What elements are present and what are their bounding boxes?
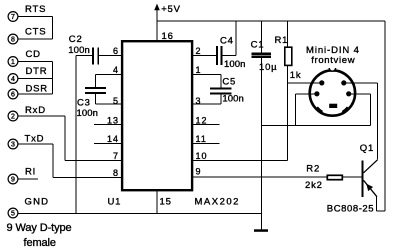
- svg-text:MAX202: MAX202: [195, 196, 240, 207]
- connector pin 8 circle: [8, 34, 18, 44]
- capacitor C5 plates: [210, 88, 232, 95]
- svg-text:6: 6: [11, 92, 15, 99]
- resistor R2: [327, 175, 342, 179]
- transistor Q1 base bar: [362, 161, 364, 198]
- wire U1 pin14 stub: [94, 143, 121, 145]
- wire DSR from pin6: [18, 93, 52, 95]
- svg-text:CD: CD: [26, 49, 41, 60]
- transistor Q1 collector diagonal: [364, 160, 378, 173]
- wire TxD horizontal: [18, 143, 53, 145]
- svg-text:10: 10: [196, 151, 208, 161]
- connector pin 1 circle: [8, 57, 18, 67]
- wire DIN lower-right drop: [369, 94, 371, 126]
- svg-text:8: 8: [113, 168, 119, 178]
- svg-text:C2: C2: [69, 34, 83, 45]
- svg-text:2: 2: [196, 46, 202, 56]
- svg-text:4: 4: [113, 65, 119, 75]
- wire CTS from pin8: [18, 38, 52, 40]
- wire into U1 pin8: [53, 176, 121, 178]
- capacitor C3 plates: [85, 87, 106, 94]
- wire collector vertical: [376, 83, 378, 160]
- Mini-DIN pin dot upper-left: [319, 80, 324, 85]
- svg-text:U1: U1: [108, 196, 122, 207]
- wire RxD horizontal: [18, 115, 65, 117]
- svg-text:1k: 1k: [290, 70, 302, 81]
- wire C4 drop from rail: [235, 21, 237, 56]
- wire +5V rail: [157, 20, 385, 22]
- svg-text:RTS: RTS: [25, 4, 46, 15]
- svg-text:7: 7: [113, 151, 119, 161]
- svg-text:C5: C5: [222, 77, 236, 88]
- wire RI stub: [18, 178, 38, 180]
- wire emitter U bottom: [377, 210, 386, 212]
- svg-text:BC808-25: BC808-25: [327, 203, 374, 214]
- ground symbol: [254, 229, 268, 232]
- svg-text:C1: C1: [251, 40, 265, 51]
- svg-text:100n: 100n: [222, 94, 244, 105]
- svg-text:16: 16: [162, 31, 174, 42]
- connector pin 4 circle: [8, 74, 18, 84]
- Mini-DIN pin dot upper-right: [341, 80, 346, 85]
- svg-text:C3: C3: [77, 97, 91, 108]
- connector pin 7 circle: [8, 12, 18, 22]
- wire CD from pin1: [18, 61, 52, 63]
- wire CD-DTR-DSR loop vertical: [52, 62, 54, 95]
- svg-text:female: female: [24, 237, 56, 249]
- wire TxD vertical: [52, 144, 54, 177]
- wire +5V right side down: [384, 21, 386, 211]
- svg-text:2: 2: [11, 114, 15, 121]
- wire U1 pin15 to ground rail: [156, 191, 158, 213]
- svg-text:14: 14: [107, 134, 119, 144]
- wire C5 bottom to pin3 wire: [220, 94, 222, 104]
- Mini-DIN left shield tab: [316, 108, 322, 113]
- Mini-DIN right shield tab: [343, 108, 349, 113]
- wire C2 to ground vertical: [75, 56, 77, 214]
- wire C2 to U1 pin6: [99, 55, 121, 57]
- wire RTS from pin7: [18, 16, 52, 18]
- wire DIN lower-left pin: [296, 93, 317, 95]
- svg-text:GND: GND: [25, 196, 50, 207]
- svg-text:RI: RI: [25, 167, 36, 178]
- capacitor C4 plates: [216, 46, 222, 65]
- wire U1 pin4: [96, 73, 121, 75]
- svg-text:1: 1: [11, 59, 15, 66]
- wire U1 pin13 stub: [94, 124, 121, 126]
- wire DIN upper-right pin: [344, 82, 378, 84]
- Mini-DIN key slot: [329, 104, 337, 108]
- wire R1 bottom vertical: [287, 66, 289, 161]
- wire pin1 to C5 top: [220, 74, 222, 87]
- svg-text:5: 5: [113, 96, 119, 106]
- svg-text:10µ: 10µ: [259, 62, 277, 73]
- +5V arrow: [154, 4, 160, 11]
- capacitor C1 plates (electrolytic): [251, 53, 271, 58]
- connector pin 3 circle: [8, 139, 18, 149]
- svg-text:2k2: 2k2: [305, 180, 323, 191]
- svg-text:100n: 100n: [77, 108, 99, 119]
- Mini-DIN pin dot lower-right: [346, 91, 351, 96]
- svg-text:100n: 100n: [68, 45, 90, 56]
- svg-text:12: 12: [196, 115, 208, 125]
- svg-text:frontview: frontview: [311, 55, 355, 66]
- wire C1 top drop: [260, 21, 262, 53]
- svg-text:5: 5: [11, 211, 15, 218]
- wire U1 pin3: [193, 103, 221, 105]
- svg-text:15: 15: [160, 196, 172, 207]
- IC U1 MAX202 body: [122, 41, 192, 190]
- wire C3 bottom to pin5 wire: [95, 94, 97, 104]
- svg-text:1: 1: [196, 65, 202, 75]
- svg-text:9: 9: [11, 177, 15, 184]
- Mini-DIN notch arc: [329, 68, 335, 71]
- svg-text:13: 13: [107, 115, 119, 125]
- connector pin 9 circle: [8, 174, 18, 184]
- wire into U1 pin7: [65, 160, 121, 162]
- svg-text:C4: C4: [220, 36, 234, 47]
- Mini-DIN pin dot lower-left: [314, 91, 319, 96]
- wire C1 bottom to ground rail: [260, 58, 262, 213]
- svg-text:Q1: Q1: [360, 143, 374, 154]
- svg-text:3: 3: [196, 96, 202, 106]
- wire ground symbol stem: [260, 213, 262, 229]
- wire U1 pin9 to R2: [193, 176, 326, 178]
- wire C2 left: [76, 55, 92, 57]
- Mini-DIN notch erase: [329, 64, 336, 71]
- svg-text:RxD: RxD: [25, 105, 46, 116]
- svg-text:4: 4: [11, 76, 15, 83]
- wire emitter down: [376, 197, 378, 211]
- wire R2 to Q1 base: [343, 176, 362, 178]
- connector pin 5 circle: [8, 208, 18, 218]
- wire pin4 to C3 top: [95, 74, 97, 87]
- svg-text:100n: 100n: [224, 59, 246, 70]
- transistor Q1 emitter arrow (PNP): [366, 184, 373, 192]
- wire U1 pin1: [193, 73, 221, 75]
- wire U1 pin2 to C4: [193, 55, 216, 57]
- svg-text:CTS: CTS: [25, 27, 46, 38]
- svg-text:TxD: TxD: [25, 133, 45, 144]
- connector pin 6 circle: [8, 89, 18, 99]
- svg-text:11: 11: [196, 134, 207, 144]
- wire DTR from pin4: [18, 78, 52, 80]
- svg-text:8: 8: [11, 37, 15, 44]
- resistor R1: [285, 47, 292, 65]
- wire C4 to drop: [222, 55, 236, 57]
- svg-text:7: 7: [11, 14, 15, 21]
- svg-text:9 Way D-type: 9 Way D-type: [7, 222, 72, 234]
- wire RxD vertical: [64, 116, 66, 161]
- wire +5V stem to pin16: [156, 10, 158, 41]
- wire DIN lower-left drop: [295, 94, 297, 126]
- wire to DIN upper-left pin: [288, 82, 322, 84]
- transistor Q1 emitter diagonal: [364, 180, 378, 197]
- wire RTS-CTS loop vertical: [52, 17, 54, 40]
- svg-text:6: 6: [113, 46, 119, 56]
- wire U1 pin12 stub: [193, 124, 219, 126]
- wire U1 pin11 stub: [193, 143, 219, 145]
- svg-text:3: 3: [11, 142, 15, 149]
- connector pin 2 circle: [8, 111, 18, 121]
- capacitor C2 plates: [92, 48, 99, 65]
- svg-text:R1: R1: [275, 35, 289, 46]
- svg-text:9: 9: [196, 166, 202, 176]
- wire GND rail: [18, 212, 261, 214]
- wire U1 pin10 to R1 vertical: [193, 160, 288, 162]
- svg-text:DTR: DTR: [26, 66, 48, 77]
- svg-text:+5V: +5V: [161, 4, 181, 15]
- svg-text:R2: R2: [306, 163, 320, 174]
- wire R1 top drop: [287, 21, 289, 47]
- svg-text:DSR: DSR: [26, 83, 48, 94]
- wire U1 pin5: [96, 103, 121, 105]
- wire ground spur to DIN: [261, 125, 370, 127]
- wire DIN lower-right pin: [349, 93, 371, 95]
- Mini-DIN 4 connector ring: [310, 70, 355, 115]
